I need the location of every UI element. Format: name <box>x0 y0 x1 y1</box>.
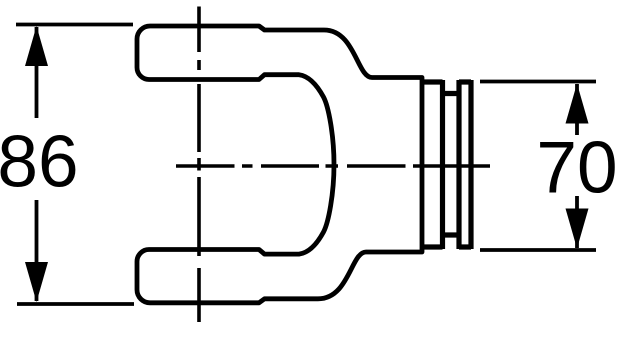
dimension 70 arrow down <box>566 209 589 249</box>
dimension 86 extension line bottom <box>17 302 134 306</box>
dimension 86 extension line top <box>16 23 133 27</box>
dimension 86 arrow up <box>25 26 48 66</box>
ring bottom edges <box>422 235 471 247</box>
dimension 70 extension line top <box>480 80 596 84</box>
dimension 86 line <box>35 27 39 301</box>
ring top edges <box>422 82 471 94</box>
dimension 70 arrow up <box>566 84 589 124</box>
svg-text:70: 70 <box>536 128 617 209</box>
ring vertical line 2 <box>456 80 461 249</box>
hub ring grooves <box>422 80 471 249</box>
svg-text:86: 86 <box>0 122 79 203</box>
dimension 86 arrow down <box>25 262 48 302</box>
hub end face <box>468 80 473 249</box>
ring vertical line 1 <box>440 80 445 249</box>
vertical centerline <box>197 7 201 323</box>
dimension 70 line <box>575 84 579 248</box>
dimension 70 extension line bottom <box>480 248 596 252</box>
horizontal centerline <box>176 164 490 168</box>
yoke part outline <box>137 26 422 303</box>
